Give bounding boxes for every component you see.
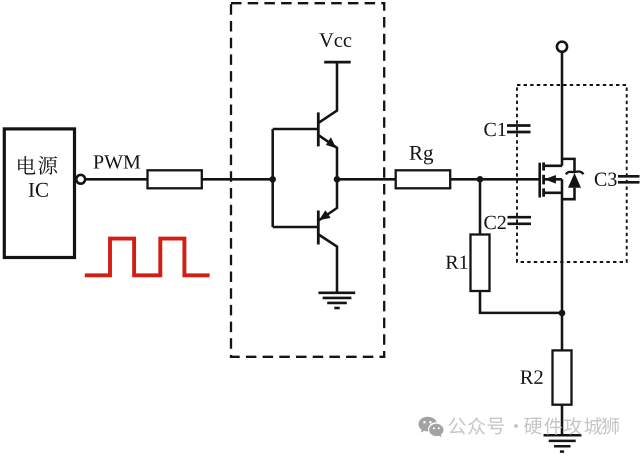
wire: Q1 base lead xyxy=(273,128,319,131)
label 源 (power IC text) xyxy=(38,156,57,175)
watermark char · xyxy=(514,424,518,428)
label R2 xyxy=(520,370,542,384)
wire: source/body down to divider node xyxy=(561,179,564,313)
wire: drain terminal down to Q3 drain xyxy=(561,52,564,166)
Vcc rail bar xyxy=(324,61,351,64)
wire: node down to R2 (drawn via main vertical) xyxy=(561,313,564,350)
watermark char 号 xyxy=(488,418,505,435)
wire: R1 bottom to divider node xyxy=(480,291,562,313)
power IC box U1 (电源 IC) xyxy=(4,129,74,258)
label C1 xyxy=(484,123,505,136)
watermark char 硬 xyxy=(524,418,542,435)
Q2 collector lead xyxy=(319,235,337,293)
PWM output terminal circle xyxy=(76,175,85,184)
label C3 xyxy=(595,173,617,186)
transistor Q1 (NPN, upper) base bar xyxy=(317,112,320,146)
PWM square-wave waveform (red) xyxy=(85,239,210,276)
watermark char 公 xyxy=(448,418,465,435)
watermark char 众 xyxy=(468,417,485,435)
watermark char 城 xyxy=(584,417,602,435)
wire: gate node down to R1 xyxy=(479,179,482,234)
label PWM xyxy=(94,155,141,168)
node: divider junction xyxy=(559,310,566,317)
resistor R1 xyxy=(471,235,490,292)
node: gate node xyxy=(477,176,484,183)
resistor R2 xyxy=(553,350,572,404)
label Rg xyxy=(410,146,434,164)
label R1 xyxy=(446,256,468,269)
label Vcc xyxy=(319,33,351,47)
Q3 body stub with arrow xyxy=(545,178,562,181)
transistor Q2 base bar xyxy=(317,211,320,245)
wire: Vcc to Q1 collector xyxy=(319,62,337,123)
wire: Q2 base lead xyxy=(273,226,319,229)
capacitor C1 (gate-drain) plates xyxy=(507,124,531,127)
wire: terminal to input resistor xyxy=(85,178,147,181)
MOSFET Q3 gate bar xyxy=(538,163,541,198)
capacitor C3 (drain-source) plates xyxy=(618,175,640,178)
input series resistor (PWM) xyxy=(148,170,202,188)
driver stage dashed enclosure xyxy=(231,3,384,357)
watermark char 攻 xyxy=(564,417,582,435)
drain terminal circle xyxy=(557,42,567,52)
MOSFET Q3 channel segments xyxy=(542,162,545,196)
watermark char 狮 xyxy=(602,417,619,434)
label C2 xyxy=(484,216,505,229)
label IC xyxy=(29,183,48,197)
wire: driver output to Rg xyxy=(337,178,396,181)
label 电 (power IC text) xyxy=(18,156,35,174)
body diode D1 triangle xyxy=(568,173,581,188)
node: driver output junction xyxy=(334,176,341,183)
wire: Rg to gate node xyxy=(450,178,480,181)
body diode D1 cathode curve xyxy=(566,171,584,174)
wire: R2 to ground xyxy=(561,405,564,435)
watermark logo (WeChat bubbles) xyxy=(419,417,444,438)
transistor Q2 (PNP, lower) emitter lead with arrow xyxy=(319,179,337,220)
wire: resistor to driver input node xyxy=(202,178,273,181)
Q1 emitter lead with arrow xyxy=(319,135,337,179)
body diode D1 branch xyxy=(562,159,575,172)
Q3 drain stub xyxy=(544,165,562,168)
ground (bottom) xyxy=(544,435,582,451)
MOSFET package dotted enclosure xyxy=(517,85,627,262)
capacitor C2 (gate-source) plates xyxy=(508,216,532,219)
node: driver input junction xyxy=(269,176,276,183)
Q3 source stub xyxy=(544,192,562,195)
ground (driver stage) xyxy=(318,293,355,308)
watermark char 件 xyxy=(544,417,561,434)
resistor Rg xyxy=(396,170,451,188)
wire: base coupling vertical xyxy=(271,129,274,227)
wire: gate node to MOSFET gate xyxy=(480,178,539,181)
